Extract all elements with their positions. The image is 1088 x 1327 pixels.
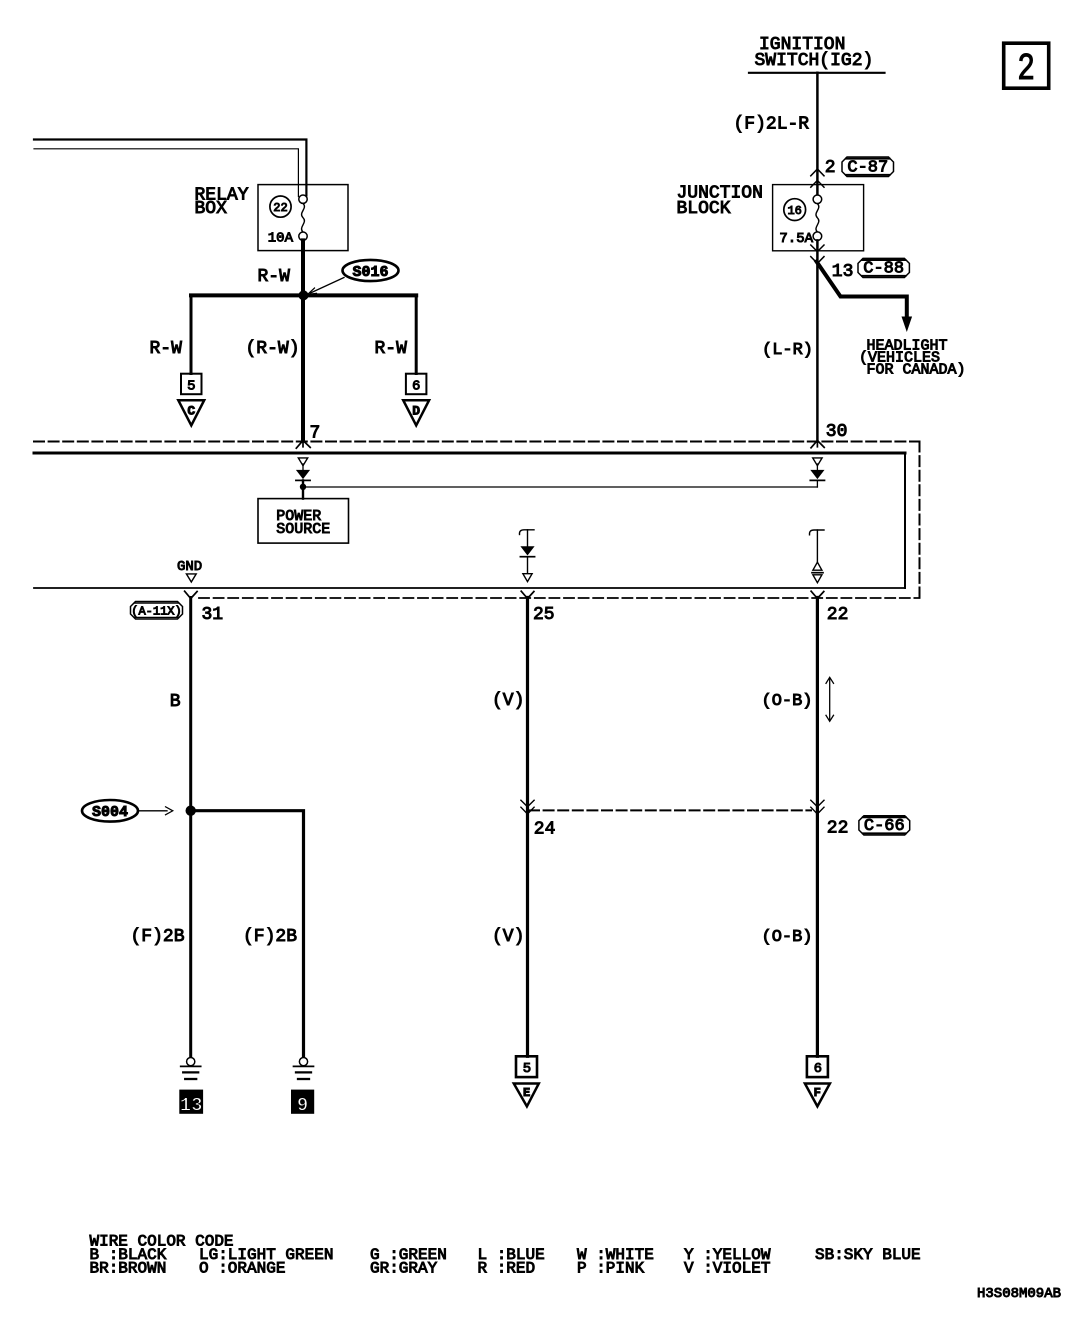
node 7 internal: hollow triangle xyxy=(298,458,307,466)
svg-text:BLOCK: BLOCK xyxy=(677,199,731,219)
connector capsule C-66 xyxy=(859,816,910,835)
svg-text:R-W: R-W xyxy=(150,339,183,359)
svg-text:O :ORANGE: O :ORANGE xyxy=(199,1259,285,1277)
svg-text:25: 25 xyxy=(533,605,555,625)
svg-text:7.5A: 7.5A xyxy=(779,231,813,247)
svg-text:30: 30 xyxy=(826,422,848,442)
ground ref box 13 xyxy=(179,1090,203,1114)
pin 7 fork xyxy=(296,441,310,449)
connector box 5 bottom xyxy=(516,1056,537,1077)
svg-text:(F)2B: (F)2B xyxy=(243,927,297,947)
fuse F22 terminal top xyxy=(299,195,307,203)
fuse F16 terminal bottom xyxy=(813,232,822,241)
connector capsule C-88 xyxy=(858,258,909,277)
dashed harness box top xyxy=(34,441,920,443)
svg-text:24: 24 xyxy=(534,820,556,840)
chevrons down at 22 C-66 xyxy=(811,800,824,814)
wire: relay output R-W xyxy=(301,240,305,440)
wire: violet wire 25-24 xyxy=(526,598,529,1057)
ignition switch underline xyxy=(749,72,885,74)
wire: ground wire B xyxy=(189,598,192,1058)
pin 31 fork xyxy=(185,591,198,598)
fuse F16 terminal top xyxy=(813,195,822,204)
two-way arrow xyxy=(829,679,831,720)
relay box outline xyxy=(258,185,348,251)
destination triangle D xyxy=(403,400,429,425)
wire: junction block output (L-R) xyxy=(816,240,819,440)
svg-text:(F)2B: (F)2B xyxy=(131,927,185,947)
destination triangle C xyxy=(178,400,204,425)
svg-text:10A: 10A xyxy=(268,231,294,247)
chevrons up at junction block top xyxy=(811,169,824,187)
svg-text:SWITCH(IG2): SWITCH(IG2) xyxy=(755,51,874,71)
svg-text:R-W: R-W xyxy=(375,339,408,359)
wire: T branch horizontal xyxy=(191,293,416,297)
node 22 internal: hook xyxy=(809,530,824,535)
svg-text:C-66: C-66 xyxy=(864,817,905,836)
svg-text:R-W: R-W xyxy=(258,267,291,287)
svg-text:GR:GRAY: GR:GRAY xyxy=(370,1259,438,1277)
svg-text:22: 22 xyxy=(273,201,287,215)
pin 30 fork xyxy=(811,441,824,448)
svg-text:31: 31 xyxy=(202,605,224,625)
internal junction dot xyxy=(300,484,306,490)
wire: right drop to connector 6 xyxy=(415,297,418,374)
connector box 6 bottom xyxy=(807,1056,828,1077)
svg-text:22: 22 xyxy=(827,818,849,838)
svg-text:(V): (V) xyxy=(492,691,524,711)
POWER SOURCE box xyxy=(258,499,349,543)
chevrons down at junction block bottom xyxy=(811,245,824,263)
GND hollow triangle xyxy=(186,574,196,582)
svg-text:5: 5 xyxy=(523,1061,531,1077)
svg-text:SB:SKY BLUE: SB:SKY BLUE xyxy=(815,1246,921,1264)
svg-text:BOX: BOX xyxy=(195,199,228,219)
arrow from S004 to junction xyxy=(138,810,167,812)
pin 22 fork xyxy=(811,591,824,598)
svg-text:C-88: C-88 xyxy=(863,259,904,278)
arrow from S016 to junction xyxy=(311,278,345,294)
node 25 internal: hook xyxy=(519,530,534,535)
fuse F16 squiggle xyxy=(816,204,819,232)
svg-text:(R-W): (R-W) xyxy=(246,339,300,359)
svg-text:V :VIOLET: V :VIOLET xyxy=(684,1259,770,1277)
node 25 internal: hollow triangle xyxy=(523,574,532,582)
node 30 internal: hollow triangle xyxy=(813,458,822,466)
relay box circled 22 xyxy=(270,196,291,217)
node 22 internal: triangle down xyxy=(813,575,822,583)
svg-text:2: 2 xyxy=(1017,49,1035,91)
svg-text:(L-R): (L-R) xyxy=(762,341,813,360)
connector box 6 xyxy=(406,374,427,395)
fuse F22 terminal bottom xyxy=(299,232,307,240)
svg-text:P :PINK: P :PINK xyxy=(577,1259,645,1277)
chevrons down at 24 xyxy=(521,800,534,814)
node 22 internal: bar xyxy=(812,572,823,574)
svg-text:F: F xyxy=(814,1086,821,1100)
svg-text:6: 6 xyxy=(814,1061,822,1077)
power unit box top xyxy=(34,452,905,455)
power unit box bottom xyxy=(34,587,905,589)
destination triangle E xyxy=(514,1084,539,1107)
svg-text:B: B xyxy=(170,692,181,712)
node 22 internal: triangle up xyxy=(813,562,822,570)
svg-text:16: 16 xyxy=(787,204,801,218)
connector capsule C-87 xyxy=(842,157,894,177)
svg-text:(V): (V) xyxy=(492,927,524,947)
internal link wire xyxy=(303,486,817,488)
dashed harness box right xyxy=(919,442,921,599)
ground ref box 9 xyxy=(291,1090,314,1114)
junction block circled 16 xyxy=(784,199,806,221)
svg-text:C: C xyxy=(187,404,195,419)
wire: headlight branch xyxy=(817,262,907,318)
svg-text:(F)2L-R: (F)2L-R xyxy=(734,114,810,134)
splice S004 ellipse xyxy=(82,800,138,822)
svg-text:13: 13 xyxy=(832,262,854,282)
junction dot S004 xyxy=(186,806,196,816)
page number box 2 xyxy=(1004,43,1049,88)
ground symbol right xyxy=(299,1058,307,1066)
connector box 5 xyxy=(181,374,202,395)
ground symbol left xyxy=(187,1058,195,1066)
destination triangle F xyxy=(805,1084,830,1107)
dashed harness box bottom xyxy=(199,597,920,599)
junction block outline xyxy=(773,185,864,251)
wire: left drop to connector 5 xyxy=(190,297,193,374)
svg-text:(O-B): (O-B) xyxy=(762,928,813,947)
svg-text:C-87: C-87 xyxy=(847,158,888,177)
svg-text:22: 22 xyxy=(827,605,849,625)
svg-text:2: 2 xyxy=(825,158,836,178)
connector capsule A-11X xyxy=(131,602,183,620)
svg-text:(A-11X): (A-11X) xyxy=(131,604,181,618)
wire: orange-black wire 22 xyxy=(816,598,819,1057)
svg-text:FOR CANADA): FOR CANADA) xyxy=(867,361,966,378)
node 7 internal: diode xyxy=(302,464,304,470)
junction dot S016 xyxy=(299,290,309,300)
svg-text:S004: S004 xyxy=(92,804,128,821)
node 25 internal: diode xyxy=(520,546,534,555)
power unit box right xyxy=(904,453,906,588)
svg-text:D: D xyxy=(412,404,420,419)
svg-text:E: E xyxy=(523,1086,530,1100)
dashed link 24 to 22 xyxy=(529,809,811,811)
svg-text:S016: S016 xyxy=(352,264,388,281)
svg-text:GND: GND xyxy=(177,559,202,575)
splice S016 ellipse xyxy=(343,260,399,281)
wire: S004 branch xyxy=(191,811,304,1058)
headlight branch arrowhead xyxy=(902,317,913,333)
svg-text:H3S08M09AB: H3S08M09AB xyxy=(977,1286,1061,1302)
svg-text:5: 5 xyxy=(187,378,195,394)
svg-text:SOURCE: SOURCE xyxy=(276,521,330,538)
svg-text:6: 6 xyxy=(412,378,420,394)
wire: ignition feed (F)2L-R xyxy=(816,73,819,195)
svg-text:R :RED: R :RED xyxy=(478,1259,536,1277)
svg-text:9: 9 xyxy=(297,1094,308,1116)
wire: feed pair lower (thin) xyxy=(34,149,298,197)
wire: feed pair upper (thick) xyxy=(34,140,306,196)
svg-text:BR:BROWN: BR:BROWN xyxy=(90,1259,167,1277)
pin 25 fork xyxy=(521,591,534,598)
svg-text:(O-B): (O-B) xyxy=(762,692,813,711)
svg-text:13: 13 xyxy=(180,1094,203,1116)
fuse F22 squiggle xyxy=(302,203,305,232)
node 30 internal: diode xyxy=(816,464,818,470)
